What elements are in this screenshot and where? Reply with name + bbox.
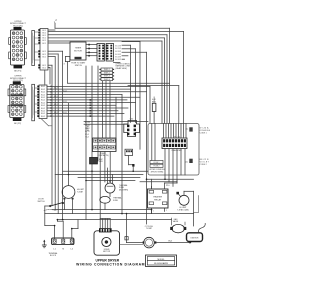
svg-text:CN2: CN2 [130,119,133,121]
wire mid run 4 [86,180,135,182]
wire strip2 diagonal [41,119,49,126]
console boundary box [148,124,199,176]
svg-text:BU-2: BU-2 [41,100,45,102]
svg-text:BU-2: BU-2 [41,113,45,115]
svg-text:SWITCH: SWITCH [37,201,45,203]
svg-text:RELAY: RELAY [154,198,162,201]
svg-text:BU-2: BU-2 [41,97,45,99]
svg-text:TEMP-3: TEMP-3 [104,76,110,78]
start switch S1 [65,56,69,61]
wire top bus 5 vertical [161,41,163,124]
gas valve coil V1 [172,224,184,232]
wire J1 row 8 [48,53,58,55]
timer switch T1 [93,138,117,152]
svg-text:TEMP-1: TEMP-1 [104,69,110,71]
svg-text:GY-1 W: GY-1 W [115,45,121,47]
svg-text:MODEL: MODEL [157,259,165,261]
svg-text:BU-3: BU-3 [54,104,58,106]
svg-text:MLG2000AWW: MLG2000AWW [154,262,168,265]
ground G1 [43,242,45,245]
wire relay stub link [151,179,153,189]
svg-text:WIRING CONNECTION DIAGRAM: WIRING CONNECTION DIAGRAM [76,262,145,266]
svg-text:FUSE: FUSE [113,200,119,202]
svg-text:BU-3: BU-3 [54,88,58,90]
svg-text:GY-3 W: GY-3 W [115,51,121,53]
svg-text:T-STAT (GAS): T-STAT (GAS) [177,208,189,211]
drive motor connector [99,228,112,232]
wire top bus 3 vertical [166,35,168,124]
timer motor M1 [70,42,86,60]
drive motor wires [99,219,101,229]
buzzer BZ1 [90,157,98,164]
svg-text:W-31: W-31 [85,128,89,130]
svg-text:RD-9: RD-9 [85,134,89,136]
wire J1 to timer motor [48,42,70,44]
svg-text:(REAR VIEW): (REAR VIEW) [116,67,128,70]
console wires down from top [163,124,165,139]
wire bottom run 1 [52,209,152,211]
svg-text:TEMP-2: TEMP-2 [104,72,110,74]
wire ignitor feed [193,214,195,226]
svg-text:BU-3: BU-3 [54,96,58,98]
wire door switch to block [45,205,50,207]
svg-text:TIMER: TIMER [75,48,82,50]
svg-text:BK (P1): BK (P1) [14,70,21,72]
wire left vertical B [57,54,59,214]
svg-text:1: 1 [153,211,154,213]
wire interstrip 1 [44,70,46,84]
console connector CN4 [162,138,187,149]
connector P2 body [10,85,24,118]
connector P2 divider bars [11,94,24,96]
svg-text:W-14: W-14 [63,90,67,92]
wire top bus 1 vertical [169,28,171,123]
svg-text:SWITCH: SWITCH [75,65,83,67]
wire bus above timer 2 [84,123,127,125]
wire J1 row 10 [48,64,52,66]
wire CN3 down [128,156,130,165]
svg-text:W-14: W-14 [63,101,67,103]
resistor R1 [152,103,156,111]
svg-text:BLOCK: BLOCK [50,255,57,257]
svg-text:GY-2 W: GY-2 W [115,48,121,50]
bus verticals center [85,66,87,220]
selector switch stack S2 [101,68,113,71]
svg-text:IGNITOR: IGNITOR [191,238,199,240]
svg-text:GY-6 W: GY-6 W [115,59,121,61]
wire bottom run 4 [57,219,63,221]
wire motor to cycling direct [120,243,143,245]
console fuse boxes [150,160,163,163]
svg-text:TN-4: TN-4 [85,137,89,139]
connector P1 body [11,30,25,65]
svg-text:BU-2: BU-2 [41,86,45,88]
svg-text:HEATER: HEATER [153,196,162,199]
wire mid run 1 [63,170,148,172]
wire top bus 1 [54,23,56,28]
junction dots [62,219,64,221]
svg-text:GY-1: GY-1 [42,56,46,58]
wire mid run 2 [55,174,143,176]
svg-text:BK (P2): BK (P2) [14,123,21,125]
svg-text:BU-2: BU-2 [41,102,45,104]
svg-text:BK-12: BK-12 [85,131,90,133]
svg-text:BU-2: BU-2 [41,116,45,118]
svg-text:W-14: W-14 [63,112,67,114]
pin header J2 [39,85,47,119]
wire bottom run 3 [63,219,172,221]
wire stubs P2 bracket [35,87,40,89]
svg-text:FUSE 2: FUSE 2 [154,166,160,168]
hi-limit thermostat TH1 [62,186,75,199]
svg-text:BU-2: BU-2 [41,111,45,113]
wire J1 stub [48,29,55,31]
wire J1 row 7 [48,50,63,52]
gas hi-limit thermostat TH2 [179,195,189,205]
svg-text:BU-2: BU-2 [41,92,45,94]
connector P1 header [14,27,22,30]
connector P1 footer [14,65,23,69]
wire cycling to ignitor [156,242,189,244]
wire under console 2 [140,181,177,183]
wire motor to cycling thermostat [126,214,128,243]
thermal fuse F2 [100,196,110,203]
wire bottom run 2 [45,213,194,215]
wire bus above timer 1 [84,120,148,122]
wire relay drop A [151,210,153,214]
wire left vertical D [51,65,53,206]
wire top bus 4 [48,37,165,39]
svg-text:BU-2: BU-2 [41,89,45,91]
wires plug CN1 right [122,41,140,43]
wire top bus 2 vertical [183,31,185,123]
svg-text:GY-1: GY-1 [42,51,46,53]
connector plug CN2 [124,121,140,137]
svg-text:2: 2 [166,210,167,212]
svg-text:1 2 3 4 5 6: 1 2 3 4 5 6 [100,145,108,147]
svg-text:MOTOR: MOTOR [103,251,111,253]
ignitor E1 [187,233,203,242]
connector P1 bracket [32,31,35,66]
svg-text:VALVE: VALVE [173,220,179,223]
wire top bus 3 [48,34,167,36]
svg-text:(FRONT VIEW): (FRONT VIEW) [151,171,164,173]
svg-text:MOTOR: MOTOR [74,50,82,52]
connector plug CN1 [97,44,104,62]
svg-text:T-STAT: T-STAT [146,227,153,230]
terminal block TB1 [52,238,75,245]
wire stubs P1 bracket [35,31,41,33]
connector P2 bracket [32,84,35,121]
svg-text:CODE 2: CODE 2 [200,164,207,166]
wire left vertical A [62,51,64,219]
wire long run 2 [128,85,179,87]
svg-text:(CONTACTS): (CONTACTS) [98,154,109,157]
wire long run right [68,82,170,84]
model box [146,255,177,267]
svg-text:GY-22: GY-22 [85,125,90,127]
svg-text:(BLOWER): (BLOWER) [119,189,128,191]
wire top bus 2 [48,30,184,32]
heater relay K1 [148,189,169,208]
terminal block feed wires [54,226,56,240]
wire right drop [178,86,180,124]
connector CN3 [125,149,133,155]
wire relay top feeds [165,182,178,184]
svg-text:BU-2: BU-2 [41,108,45,110]
cycling thermostat TH3 [144,237,155,248]
connector P2 header [13,81,21,84]
wires timer to plug [86,44,97,46]
wire top bus 4 vertical [164,38,166,124]
svg-text:FUSE 1: FUSE 1 [154,162,160,164]
thermal fuse F1 [105,183,115,193]
wire top bus 5 [48,40,162,42]
svg-text:BU-2: BU-2 [41,105,45,107]
wire under console 1 [147,178,194,180]
svg-text:TEMP-4: TEMP-4 [104,79,110,81]
connector P2 footer [13,118,22,121]
svg-text:CODE 1: CODE 1 [200,132,207,134]
svg-text:GY-1: GY-1 [42,67,46,69]
wires J2 harness [47,85,150,87]
wire J1 row 11 [48,67,50,69]
svg-text:GY-4 W: GY-4 W [115,54,121,56]
svg-text:BU-2: BU-2 [41,94,45,96]
svg-text:P10: P10 [166,185,169,187]
heater relay pins [151,208,153,214]
wire left vertical C [54,57,56,210]
console left wires [151,124,153,161]
svg-text:GY-1: GY-1 [42,43,46,45]
svg-text:BU-3: BU-3 [54,112,58,114]
drive motor M2 [94,231,120,255]
wire J1 row 9 [48,56,55,58]
wire fuse drops [107,168,109,175]
svg-text:T-STAT: T-STAT [77,190,84,193]
drive motor symbol [102,237,111,246]
console wires below connector [164,149,166,180]
wire mid run 3 [78,177,140,179]
hi-limit feed wire [68,103,70,186]
pin header J1 [40,29,48,71]
